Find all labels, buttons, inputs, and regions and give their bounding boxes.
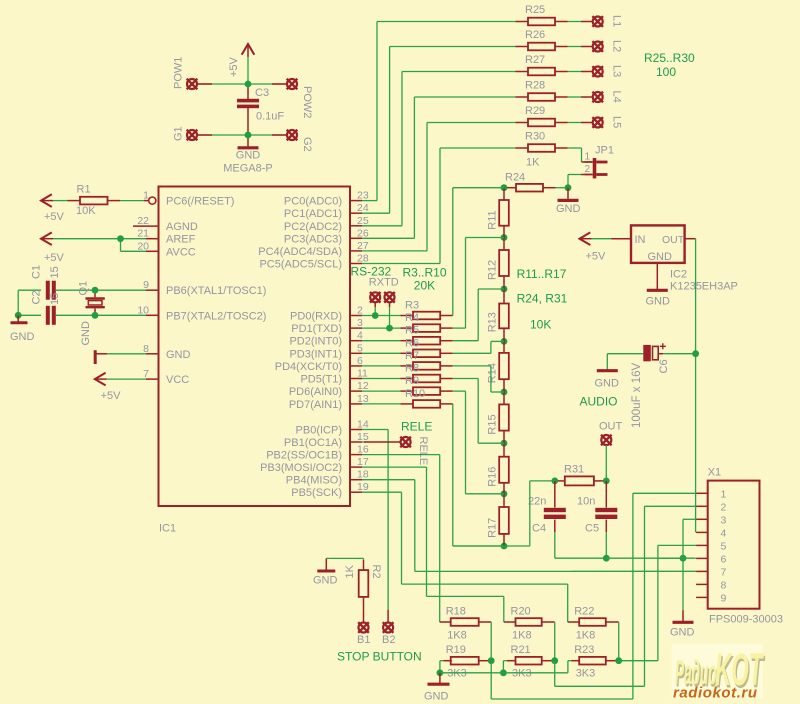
- svg-text:24: 24: [357, 202, 369, 214]
- svg-text:1: 1: [143, 190, 149, 202]
- svg-text:22: 22: [137, 215, 149, 227]
- svg-text:5: 5: [721, 540, 727, 552]
- svg-text:27: 27: [357, 240, 369, 252]
- svg-text:9: 9: [721, 592, 727, 604]
- svg-text:PC1(ADC1): PC1(ADC1): [284, 208, 342, 220]
- svg-text:10K: 10K: [76, 205, 96, 217]
- svg-text:12: 12: [357, 380, 369, 392]
- svg-text:AGND: AGND: [166, 221, 198, 233]
- svg-text:PB2(SS/OC1B): PB2(SS/OC1B): [266, 450, 342, 462]
- svg-text:RELE: RELE: [417, 437, 429, 466]
- svg-text:R11..R17: R11..R17: [517, 267, 567, 281]
- svg-text:AVCC: AVCC: [166, 246, 196, 258]
- svg-text:PD3(INT1): PD3(INT1): [289, 348, 342, 360]
- svg-text:22n: 22n: [528, 496, 546, 508]
- svg-text:1: 1: [584, 152, 590, 163]
- svg-text:MEGA8-P: MEGA8-P: [223, 163, 273, 175]
- svg-text:3K3: 3K3: [447, 668, 467, 680]
- svg-text:R20: R20: [511, 606, 531, 618]
- svg-text:28: 28: [357, 253, 369, 265]
- svg-text:R12: R12: [487, 260, 499, 280]
- svg-text:R7: R7: [405, 350, 419, 362]
- svg-text:13: 13: [357, 393, 369, 405]
- svg-text:10: 10: [137, 304, 149, 316]
- svg-text:C3: C3: [255, 87, 269, 99]
- svg-text:C5: C5: [585, 523, 599, 535]
- svg-text:20: 20: [137, 240, 149, 252]
- svg-text:GND: GND: [10, 331, 35, 343]
- svg-text:15: 15: [49, 293, 61, 305]
- svg-text:GND: GND: [670, 627, 695, 639]
- svg-text:PD7(AIN1): PD7(AIN1): [289, 399, 342, 411]
- svg-text:3K3: 3K3: [576, 668, 596, 680]
- svg-text:IN: IN: [635, 234, 646, 246]
- svg-text:OUT: OUT: [599, 421, 623, 433]
- svg-text:R3..R10: R3..R10: [403, 265, 447, 279]
- svg-text:POW1: POW1: [173, 57, 185, 89]
- svg-text:2: 2: [721, 501, 727, 513]
- svg-text:2: 2: [357, 305, 363, 317]
- svg-text:IC2: IC2: [670, 269, 687, 281]
- svg-text:AREF: AREF: [166, 234, 196, 246]
- svg-text:R1: R1: [77, 184, 91, 196]
- svg-text:8: 8: [143, 343, 149, 355]
- svg-text:R18: R18: [446, 606, 466, 618]
- svg-text:R24, R31: R24, R31: [517, 292, 568, 306]
- svg-text:R11: R11: [487, 210, 499, 229]
- svg-text:+5V: +5V: [101, 390, 122, 402]
- svg-text:R24: R24: [505, 172, 525, 184]
- svg-text:3: 3: [721, 514, 727, 526]
- svg-text:L1: L1: [611, 15, 623, 27]
- svg-text:R29: R29: [525, 105, 545, 117]
- svg-text:+5V: +5V: [44, 252, 65, 264]
- svg-text:PD6(AIN0): PD6(AIN0): [289, 386, 342, 398]
- svg-text:5: 5: [357, 342, 363, 354]
- svg-text:11: 11: [357, 368, 368, 380]
- svg-text:C6: C6: [658, 359, 670, 373]
- svg-text:PC0(ADC0): PC0(ADC0): [284, 196, 342, 208]
- svg-text:+5V: +5V: [44, 211, 65, 223]
- svg-text:1K: 1K: [344, 564, 356, 578]
- svg-text:15: 15: [49, 266, 61, 278]
- svg-text:B2: B2: [382, 634, 395, 646]
- svg-text:PB1(OC1A): PB1(OC1A): [284, 437, 342, 449]
- svg-text:1K8: 1K8: [447, 630, 467, 642]
- svg-text:R17: R17: [487, 518, 499, 538]
- svg-text:VCC: VCC: [166, 374, 189, 386]
- svg-text:PC2(ADC2): PC2(ADC2): [284, 221, 342, 233]
- svg-text:GND: GND: [595, 378, 620, 390]
- svg-text:IC1: IC1: [159, 523, 176, 535]
- svg-text:PD1(TXD): PD1(TXD): [291, 323, 342, 335]
- svg-text:R6: R6: [405, 337, 419, 349]
- svg-text:R5: R5: [405, 325, 419, 337]
- svg-text:R25: R25: [525, 4, 545, 16]
- svg-text:PD5(T1): PD5(T1): [300, 374, 342, 386]
- svg-text:1K: 1K: [526, 157, 540, 169]
- svg-text:GND: GND: [556, 203, 581, 215]
- svg-text:PC6(/RESET): PC6(/RESET): [166, 196, 234, 208]
- svg-text:21: 21: [137, 228, 149, 240]
- svg-text:R8: R8: [405, 363, 419, 375]
- svg-text:7: 7: [721, 566, 727, 578]
- svg-text:R9: R9: [405, 375, 419, 387]
- svg-text:7: 7: [143, 368, 149, 380]
- svg-text:R13: R13: [487, 312, 499, 332]
- svg-text:R21: R21: [511, 644, 531, 656]
- svg-text:+5V: +5V: [586, 251, 607, 263]
- svg-text:4: 4: [357, 330, 363, 342]
- svg-text:R23: R23: [574, 644, 594, 656]
- svg-text:K1235EH3AP: K1235EH3AP: [670, 281, 738, 293]
- svg-text:100: 100: [656, 65, 676, 79]
- svg-text:AUDIO: AUDIO: [580, 395, 618, 409]
- svg-text:R3: R3: [405, 300, 419, 312]
- svg-text:100uF x 16V: 100uF x 16V: [631, 362, 643, 428]
- svg-text:R16: R16: [487, 467, 499, 487]
- svg-text:PB6(XTAL1/TOSC1): PB6(XTAL1/TOSC1): [166, 285, 266, 297]
- svg-text:R31: R31: [564, 464, 584, 476]
- svg-text:R22: R22: [574, 606, 594, 618]
- svg-text:POW2: POW2: [301, 86, 313, 118]
- svg-text:1K8: 1K8: [576, 630, 596, 642]
- svg-text:PC3(ADC3): PC3(ADC3): [284, 233, 342, 245]
- svg-text:RXTD: RXTD: [369, 277, 399, 289]
- svg-text:17: 17: [357, 456, 369, 468]
- svg-text:G1: G1: [173, 126, 185, 141]
- svg-text:R28: R28: [525, 80, 545, 92]
- svg-text:9: 9: [143, 279, 149, 291]
- svg-text:26: 26: [357, 227, 369, 239]
- svg-text:10K: 10K: [530, 318, 551, 332]
- svg-text:GND: GND: [236, 150, 261, 162]
- svg-text:PB3(MOSI/OC2): PB3(MOSI/OC2): [260, 462, 342, 474]
- svg-text:PD0(RXD): PD0(RXD): [290, 311, 342, 323]
- svg-text:R27: R27: [525, 54, 545, 66]
- svg-text:8: 8: [721, 579, 727, 591]
- svg-text:6: 6: [357, 355, 363, 367]
- svg-text:R15: R15: [487, 414, 499, 434]
- svg-text:3: 3: [357, 317, 363, 329]
- svg-text:R19: R19: [446, 644, 466, 656]
- svg-text:6: 6: [721, 553, 727, 565]
- svg-text:RELE: RELE: [401, 420, 432, 434]
- svg-text:PB0(ICP): PB0(ICP): [296, 425, 342, 437]
- svg-text:3K3: 3K3: [512, 668, 532, 680]
- svg-text:PD4(XCK/T0): PD4(XCK/T0): [275, 361, 342, 373]
- svg-text:STOP BUTTON: STOP BUTTON: [337, 650, 422, 664]
- svg-text:25: 25: [357, 215, 369, 227]
- svg-text:PC4(ADC4/SDA): PC4(ADC4/SDA): [258, 246, 342, 258]
- svg-text:PB7(XTAL2/TOSC2): PB7(XTAL2/TOSC2): [166, 310, 266, 322]
- svg-text:OUT: OUT: [662, 234, 685, 246]
- svg-text:C2: C2: [31, 290, 43, 304]
- svg-text:C1: C1: [31, 265, 43, 279]
- svg-text:FPS009-30003: FPS009-30003: [709, 614, 783, 626]
- svg-text:L4: L4: [611, 91, 623, 103]
- svg-text:R25..R30: R25..R30: [644, 51, 695, 65]
- svg-text:GND: GND: [648, 251, 673, 263]
- svg-text:10n: 10n: [577, 496, 595, 508]
- svg-text:1K8: 1K8: [512, 630, 532, 642]
- svg-text:L5: L5: [611, 116, 623, 128]
- svg-text:+5V: +5V: [228, 56, 240, 77]
- svg-text:PC5(ADC5/SCL): PC5(ADC5/SCL): [259, 259, 342, 271]
- svg-text:16: 16: [357, 444, 369, 456]
- svg-text:L3: L3: [611, 65, 623, 77]
- svg-text:2: 2: [584, 164, 590, 175]
- svg-text:4: 4: [721, 527, 727, 539]
- svg-text:GND: GND: [424, 691, 449, 703]
- svg-text:GND: GND: [313, 574, 338, 586]
- svg-text:GND: GND: [646, 296, 671, 308]
- svg-text:14: 14: [357, 419, 369, 431]
- svg-text:R30: R30: [525, 131, 545, 143]
- svg-text:R26: R26: [525, 29, 545, 41]
- svg-text:L2: L2: [611, 40, 623, 52]
- svg-text:R2: R2: [370, 565, 382, 579]
- svg-text:15: 15: [357, 431, 369, 443]
- svg-text:1: 1: [721, 488, 727, 500]
- svg-text:JP1: JP1: [595, 145, 614, 157]
- svg-text:G2: G2: [301, 137, 313, 152]
- svg-text:X1: X1: [708, 467, 721, 479]
- svg-text:GND: GND: [166, 349, 191, 361]
- svg-text:B1: B1: [357, 634, 370, 646]
- svg-text:0.1uF: 0.1uF: [256, 111, 284, 123]
- svg-text:PB5(SCK): PB5(SCK): [291, 487, 342, 499]
- svg-text:Q1: Q1: [78, 281, 90, 296]
- svg-text:23: 23: [357, 190, 369, 202]
- svg-text:PD2(INT0): PD2(INT0): [289, 336, 342, 348]
- svg-text:18: 18: [357, 469, 369, 481]
- svg-text:19: 19: [357, 481, 369, 493]
- svg-text:GND: GND: [80, 321, 92, 346]
- svg-text:R10: R10: [405, 388, 425, 400]
- svg-text:R4: R4: [405, 312, 419, 324]
- svg-text:C4: C4: [532, 523, 546, 535]
- svg-text:20K: 20K: [414, 279, 435, 293]
- svg-text:PB4(MISO): PB4(MISO): [286, 475, 342, 487]
- svg-text:radiokot.ru: radiokot.ru: [673, 685, 757, 702]
